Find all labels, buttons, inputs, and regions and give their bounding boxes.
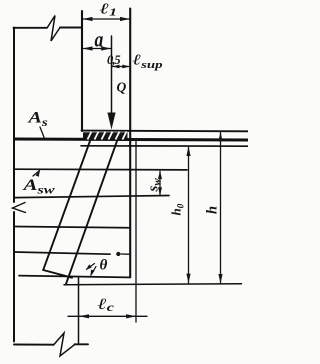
- arrowhead Q: [107, 113, 115, 130]
- theta arrow to strut: [87, 264, 95, 270]
- arrowhead h0 top: [186, 146, 190, 156]
- break chevron on column left edge: [13, 203, 26, 213]
- beam outer face: [129, 9, 131, 278]
- arrowhead l1 right: [120, 17, 130, 21]
- stirrup 4: [15, 252, 110, 254]
- arrowhead h bottom: [218, 274, 222, 284]
- stirrup 3: [15, 227, 130, 228]
- h dimension line: [220, 132, 222, 284]
- arrowhead Asw leader: [36, 170, 41, 177]
- dimension l1 line: [83, 18, 131, 20]
- arrowhead theta bottom: [91, 270, 95, 277]
- arrowhead h top: [218, 132, 222, 142]
- column top cut line: [14, 27, 47, 29]
- arrowhead lc right: [126, 314, 136, 318]
- column left edge: [13, 28, 15, 203]
- arrowhead lc left: [79, 314, 89, 318]
- h0 dimension line: [188, 147, 190, 283]
- dimension 0,5 lsup line: [112, 66, 130, 68]
- strut bottom closing line: [43, 270, 72, 278]
- arrowhead theta strut: [86, 264, 92, 270]
- arrowhead h0 bottom: [186, 274, 190, 284]
- bar bend dot: [116, 252, 120, 256]
- svg-text:h: h: [205, 206, 221, 214]
- column face below corbel: [78, 278, 80, 344]
- column bottom cut line: [14, 344, 54, 346]
- svg-text:0,5: 0,5: [107, 53, 120, 67]
- break bolt in bottom cut: [54, 333, 76, 356]
- stirrup 1: [15, 168, 187, 171]
- arrowhead 05 right: [122, 65, 130, 69]
- As leader: [40, 127, 45, 139]
- svg-text:θ: θ: [100, 258, 108, 274]
- break bolt in top cut: [47, 16, 60, 42]
- column face above corbel: [81, 11, 83, 131]
- arrowhead l1 left: [83, 17, 93, 21]
- arrowhead sw top: [158, 171, 162, 179]
- svg-text:Q: Q: [117, 80, 127, 95]
- load line Q: [111, 36, 113, 116]
- As bar line: [81, 145, 248, 147]
- inclined strut left line: [43, 141, 90, 270]
- bottom reference line: [64, 284, 242, 285]
- arrowhead a right: [101, 46, 111, 50]
- stirrup 2: [15, 196, 169, 198]
- Asw leader: [33, 171, 40, 177]
- inclined strut right line: [66, 141, 117, 284]
- lc right extension line: [135, 141, 137, 322]
- lc dimension line: [68, 315, 147, 317]
- theta arrow to bottom: [91, 267, 96, 276]
- bearing pad top line: [82, 130, 249, 133]
- arrowhead 05 left: [112, 65, 120, 69]
- arrowhead a left: [83, 46, 93, 50]
- corbel top / As line (thick): [15, 139, 249, 140]
- svg-text:a: a: [95, 28, 104, 52]
- dimension a line: [83, 48, 112, 50]
- bearing pad hatch: [83, 132, 128, 140]
- arrowhead sw bottom: [158, 187, 162, 195]
- corbel bottom edge: [19, 276, 130, 278]
- sw dimension short line: [159, 171, 161, 196]
